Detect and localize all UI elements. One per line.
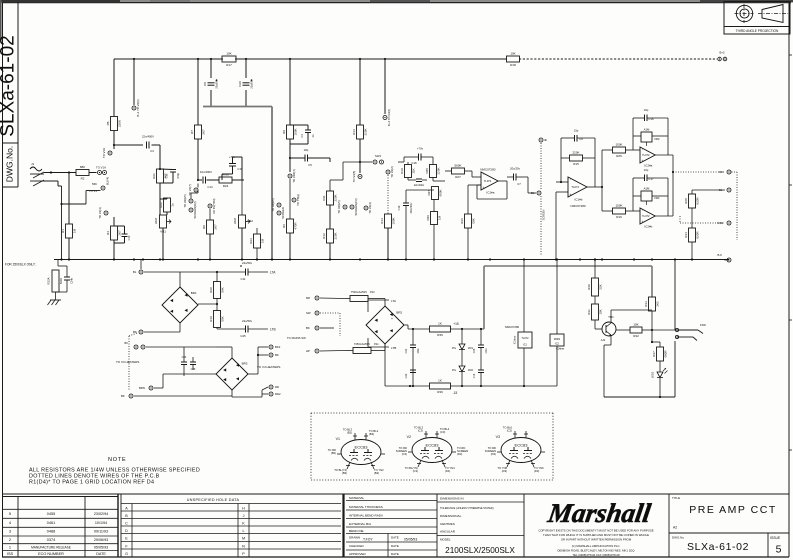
- wire jack to R2: [44, 172, 76, 174]
- wire down to terminals: [289, 158, 291, 172]
- wire jack earth: [61, 186, 63, 260]
- wire R28 to bus: [691, 208, 693, 228]
- svg-text:RD: RD: [275, 385, 279, 389]
- wire R11 top: [329, 180, 331, 191]
- wire R7 down: [197, 139, 199, 180]
- svg-text:R6 BL(YB3): R6 BL(YB3): [212, 198, 216, 213]
- node TO V2(2): [386, 166, 394, 178]
- junction: [523, 258, 525, 260]
- svg-text:R31: R31: [587, 309, 591, 315]
- capacitor C13: [165, 170, 181, 179]
- svg-text:TO V2(2): TO V2(2): [390, 166, 394, 178]
- svg-text:R21: R21: [152, 173, 156, 179]
- wire mains live: [320, 297, 345, 300]
- svg-text:220n/400v: 220n/400v: [411, 202, 413, 214]
- svg-text:FS2: FS2: [370, 291, 375, 294]
- wire bridge bottom to BK: [179, 323, 181, 332]
- junction: [651, 258, 653, 260]
- resistor R21 wire: [159, 168, 161, 170]
- junction: [672, 171, 674, 173]
- wire R33 top grey: [651, 296, 653, 298]
- svg-text:LTA: LTA: [391, 299, 396, 303]
- resistor R37: [652, 347, 668, 361]
- resistor R6: [282, 219, 298, 233]
- svg-text:220K: 220K: [572, 151, 579, 155]
- switch SW1: [360, 154, 384, 164]
- wire bus drop x675: [674, 260, 676, 331]
- ic IC2 power: [550, 334, 565, 351]
- svg-text:SLXa-61-02: SLXa-61-02: [687, 541, 749, 553]
- svg-text:C22: C22: [404, 373, 408, 378]
- wire R9 down: [289, 139, 291, 158]
- wire: [451, 328, 485, 330]
- junction: [241, 258, 243, 260]
- resistor R17: [222, 52, 236, 67]
- svg-text:BK: BK: [121, 394, 125, 398]
- wire: [461, 372, 463, 387]
- wire -15 rail: [410, 385, 430, 387]
- resistor R7: [190, 125, 206, 139]
- node SCREEN: [277, 207, 285, 219]
- wire R9 drop: [289, 59, 291, 125]
- junction: [50, 171, 52, 173]
- wire C20 down: [245, 90, 247, 106]
- capacitor C8: [203, 79, 219, 89]
- chassis ground: [48, 300, 62, 305]
- svg-text:MODEL: MODEL: [440, 538, 451, 542]
- capacitor C3: [142, 135, 154, 154]
- svg-text:15p: 15p: [574, 129, 579, 133]
- svg-text:C18: C18: [411, 161, 417, 165]
- svg-text:(B2): (B2): [369, 432, 374, 436]
- material block: [346, 496, 437, 557]
- svg-text:1: 1: [9, 544, 11, 549]
- svg-text:R18: R18: [510, 63, 516, 67]
- svg-text:(C) MARSHALL AMPLIFICATION PLC: (C) MARSHALL AMPLIFICATION PLC.: [572, 544, 621, 548]
- node grid stopper 56K: [101, 186, 105, 190]
- wire R11-R12: [329, 205, 331, 229]
- wire cathode V1a: [113, 217, 115, 226]
- svg-text:BRN: BRN: [139, 386, 145, 390]
- svg-text:APPROVED: APPROVED: [349, 552, 367, 556]
- capacitor C23: [414, 179, 425, 187]
- svg-text:2K7: 2K7: [118, 230, 122, 236]
- junction: [601, 186, 603, 188]
- svg-text:5: 5: [9, 511, 11, 516]
- svg-text:(B2): (B2): [347, 431, 352, 435]
- svg-text:CHECKED: CHECKED: [349, 544, 365, 548]
- svg-text:LTA: LTA: [270, 271, 276, 275]
- svg-text:600K: 600K: [439, 189, 443, 196]
- junction: [289, 258, 291, 260]
- node RD: [719, 170, 731, 174]
- wire C3 to R21 node: [152, 144, 161, 146]
- resistor R14: [380, 214, 396, 228]
- node BK: [269, 353, 279, 357]
- wire bus to BL: [140, 260, 142, 270]
- svg-text:M: M: [242, 537, 245, 541]
- junction: [601, 258, 603, 260]
- resistor R16: [613, 204, 626, 220]
- junction: [405, 258, 407, 260]
- wire pair: [58, 265, 67, 267]
- wire IC2a feedback loop: [633, 117, 645, 119]
- svg-text:(C3): (C3): [402, 452, 407, 456]
- svg-text:18p: 18p: [304, 148, 309, 152]
- wire R12 to bus: [329, 243, 331, 260]
- wire dashed screen 2: [540, 196, 542, 256]
- svg-text:SCR: SCR: [717, 221, 723, 225]
- junction: [162, 258, 164, 260]
- wire emitter: [610, 335, 612, 345]
- wire R28 top: [691, 190, 693, 194]
- svg-text:C8: C8: [203, 82, 207, 86]
- svg-text:BL(Y4): BL(Y4): [106, 177, 110, 185]
- svg-text:BK: BK: [125, 341, 129, 345]
- svg-text:22n/400V: 22n/400V: [142, 135, 154, 139]
- wire C15 loop: [221, 174, 223, 180]
- unspecified hole data table: [121, 494, 344, 557]
- junction: [60, 258, 62, 260]
- svg-text:SCREEN: SCREEN: [542, 209, 546, 220]
- svg-text:R37: R37: [652, 351, 656, 357]
- wire dashed pcb: [387, 175, 389, 214]
- junction: [461, 328, 463, 330]
- svg-text:LED1: LED1: [651, 371, 655, 378]
- pcb outline dashed box: [311, 412, 553, 414]
- svg-text:(B2): (B2): [374, 471, 379, 475]
- wire C8 to screen line: [210, 90, 212, 106]
- wire C8 stem: [210, 59, 212, 78]
- svg-text:22n/400v: 22n/400v: [414, 184, 425, 187]
- wire LTB: [217, 328, 246, 330]
- wire jack return: [674, 341, 676, 397]
- svg-text:1M: 1M: [438, 215, 442, 220]
- wire bend to BL node: [527, 177, 529, 193]
- resistor R24: [219, 173, 232, 189]
- node TO V3(5): [352, 171, 362, 183]
- svg-text:ZD2: ZD2: [468, 368, 473, 372]
- resistor R20: [209, 282, 225, 299]
- resistor VR6: [426, 212, 442, 225]
- wire IC2a out: [655, 154, 673, 156]
- wire V1a anode drop: [113, 59, 115, 116]
- svg-text:680R: 680R: [664, 350, 668, 358]
- svg-text:11K: 11K: [412, 168, 416, 173]
- svg-text:BK: BK: [275, 353, 279, 357]
- svg-text:1M: 1M: [261, 238, 265, 243]
- wire VR2 top: [241, 180, 243, 215]
- junction: [651, 329, 653, 331]
- node BL: [719, 188, 731, 192]
- svg-text:THIRD ANGLE PROJECTION: THIRD ANGLE PROJECTION: [736, 29, 779, 33]
- junction: [271, 258, 273, 260]
- wire screen return (pcb trace): [203, 106, 272, 108]
- svg-text:SW1: SW1: [375, 154, 382, 158]
- wire feedback loop: [561, 137, 575, 139]
- junction: [197, 258, 199, 260]
- wire R20 chain: [216, 272, 218, 282]
- svg-text:C4: C4: [300, 134, 304, 138]
- svg-text:B+1 TO V2(6): B+1 TO V2(6): [136, 99, 140, 116]
- node BL: [133, 270, 143, 274]
- svg-text:R35: R35: [437, 333, 443, 337]
- svg-text:PRE AMP CCT: PRE AMP CCT: [689, 504, 777, 516]
- capacitor C15b: [473, 370, 484, 378]
- node BL: [531, 191, 541, 195]
- svg-text:SLXa-61-02: SLXa-61-02: [0, 35, 19, 136]
- junction: [359, 258, 361, 260]
- svg-text:R23: R23: [249, 238, 253, 244]
- svg-text:MATERIAL: MATERIAL: [349, 496, 365, 500]
- wire B+4 drop: [384, 59, 386, 114]
- resistor R21: [152, 169, 168, 183]
- svg-text:2K2: 2K2: [656, 301, 660, 307]
- resistor R4: [106, 226, 122, 240]
- svg-text:220K: 220K: [437, 167, 441, 174]
- svg-text:R36: R36: [437, 390, 443, 394]
- wire IC1b inputs: [556, 181, 568, 183]
- capacitor C15 bright: [229, 155, 243, 171]
- capacitor C19: [397, 202, 413, 214]
- node TO V1(3): [98, 207, 108, 219]
- resistor R8: [202, 220, 218, 234]
- potentiometer VR3: [641, 128, 660, 147]
- drawing number box DWG.No. SLXa-61-02: [0, 2, 19, 187]
- svg-text:TOLERANCE (UNLESS OTHERWISE ST: TOLERANCE (UNLESS OTHERWISE STATED): [440, 507, 494, 510]
- svg-text:820R: 820R: [696, 231, 700, 239]
- svg-text:(C3): (C3): [440, 430, 445, 434]
- resistor VR7: [427, 187, 443, 200]
- svg-text:R27: R27: [455, 175, 461, 179]
- svg-text:10K: 10K: [633, 323, 638, 327]
- wire: [691, 242, 693, 260]
- svg-text:IC2#b: IC2#b: [644, 224, 652, 228]
- svg-text:T500mA/250V: T500mA/250V: [351, 291, 367, 294]
- svg-text:(D4): (D4): [445, 469, 450, 473]
- svg-text:TO V3 HEATERS: TO V3 HEATERS: [116, 360, 139, 364]
- svg-text:R24: R24: [223, 184, 229, 188]
- svg-text:IC1#b: IC1#b: [574, 197, 582, 201]
- wire R19 to LTB: [216, 328, 218, 330]
- node BK: [306, 326, 319, 330]
- wire dashed to SCR: [679, 216, 681, 223]
- wire IC1b out: [587, 186, 602, 188]
- svg-text:Marshall: Marshall: [545, 498, 653, 528]
- svg-text:SCREEN: SCREEN: [281, 207, 285, 219]
- wire R27 to IC1a: [465, 170, 473, 172]
- svg-text:+: +: [482, 186, 484, 190]
- junction: [633, 258, 635, 260]
- svg-text:IC1#a: IC1#a: [486, 190, 494, 194]
- svg-text:+70v: +70v: [417, 147, 424, 151]
- op-amp IC2b: [640, 208, 655, 228]
- svg-text:DATE: DATE: [391, 544, 399, 548]
- svg-text:ECC83: ECC83: [355, 445, 369, 450]
- svg-text:B.K: B.K: [717, 253, 722, 257]
- wire screen return vertical: [271, 107, 273, 260]
- svg-text:22u/50v: 22u/50v: [215, 79, 219, 89]
- wire collector: [610, 310, 612, 323]
- junction: [289, 58, 291, 60]
- svg-text:G: G: [125, 552, 128, 556]
- svg-text:500R: 500R: [59, 278, 63, 284]
- resistor R33: [644, 297, 660, 311]
- wire HT supply bus: [114, 58, 223, 60]
- wire: [659, 342, 661, 347]
- node TO V2(E5): [271, 198, 281, 211]
- svg-text:(C3): (C3): [418, 429, 423, 433]
- svg-text:R30: R30: [587, 284, 591, 290]
- svg-text:100u: 100u: [417, 348, 420, 354]
- svg-text:3: 3: [9, 529, 11, 534]
- svg-text:RD: RD: [719, 170, 723, 174]
- capacitor C4 parallel: [300, 130, 315, 138]
- svg-text:L: L: [242, 529, 244, 533]
- svg-text:R17: R17: [226, 63, 232, 67]
- junction: [489, 258, 491, 260]
- svg-text:DWG.No: DWG.No: [672, 536, 684, 540]
- resistor R36: [430, 379, 451, 395]
- svg-text:VR6: VR6: [426, 215, 430, 221]
- resistor R19: [400, 165, 416, 178]
- wire HT bus middle: [235, 58, 507, 60]
- svg-text:1s: 1s: [171, 203, 175, 207]
- wire R13 drop: [359, 59, 361, 125]
- resistor R27: [452, 164, 465, 180]
- svg-text:22K: 22K: [599, 284, 603, 289]
- svg-text:2100SLX/2500SLX: 2100SLX/2500SLX: [445, 546, 515, 555]
- svg-text:NMC07280: NMC07280: [505, 325, 520, 329]
- svg-text:IC1#pwr: IC1#pwr: [514, 335, 517, 344]
- svg-text:220K: 220K: [364, 128, 368, 135]
- svg-text:(C3): (C3): [413, 469, 418, 473]
- capacitor C25b: [473, 345, 488, 354]
- svg-text:A1M: A1M: [644, 128, 650, 132]
- svg-text:BR2: BR2: [396, 311, 402, 315]
- capacitor C21: [404, 345, 420, 354]
- svg-text:10p: 10p: [644, 168, 649, 172]
- junction: [197, 179, 199, 181]
- bridge rectifier BR1: [162, 287, 198, 323]
- svg-text:20u/25v: 20u/25v: [510, 167, 521, 171]
- svg-text:DRAWN: DRAWN: [349, 536, 360, 540]
- svg-text:C3: C3: [150, 149, 154, 153]
- node B+4: [383, 109, 391, 126]
- wire BL branch: [692, 189, 725, 191]
- svg-text:M381: M381: [554, 338, 561, 341]
- zener ZD2: [452, 366, 474, 372]
- wire stage2 coupling: [159, 162, 161, 169]
- svg-text:C5: C5: [308, 163, 312, 167]
- node BL(YB3): [208, 198, 216, 213]
- svg-text:VR3: VR3: [654, 137, 660, 141]
- svg-text:TO V4 HEATERS: TO V4 HEATERS: [257, 365, 280, 369]
- resistor R9: [282, 125, 298, 139]
- svg-text:TO V2(4): TO V2(4): [368, 202, 372, 214]
- wire VR2 to bus: [241, 228, 243, 260]
- svg-text:B.K: B.K: [725, 258, 730, 262]
- resistor R32: [630, 323, 642, 339]
- svg-text:BR1: BR1: [191, 291, 197, 295]
- wire ZD chain: [461, 329, 463, 344]
- wire R32: [616, 329, 630, 331]
- svg-text:MP: MP: [306, 296, 310, 300]
- node RD: [269, 385, 279, 389]
- svg-text:470R: 470R: [294, 222, 298, 230]
- wire: [209, 234, 211, 260]
- svg-text:15v: 15v: [452, 346, 457, 350]
- svg-text:R2: R2: [81, 177, 85, 181]
- svg-text:SCREEN(D3): SCREEN(D3): [193, 201, 197, 218]
- wire to jack: [652, 329, 677, 331]
- svg-text:2: 2: [9, 537, 11, 542]
- wire heater drop: [183, 347, 185, 362]
- svg-text:TL072: TL072: [642, 214, 650, 218]
- svg-text:100u: 100u: [486, 348, 488, 354]
- ic IC1 power: [505, 325, 532, 348]
- svg-text:DATE: DATE: [391, 552, 399, 556]
- svg-text:05/05/93: 05/05/93: [404, 538, 417, 542]
- svg-text:VR5: VR5: [425, 168, 429, 174]
- svg-text:R33: R33: [644, 301, 648, 307]
- node B.K: [725, 258, 732, 262]
- resistor R34: [684, 228, 700, 242]
- svg-text:220K: 220K: [334, 232, 338, 239]
- wire return bottom: [604, 396, 675, 398]
- wire R14 to bus: [387, 228, 389, 260]
- svg-text:10n/400V: 10n/400V: [200, 170, 212, 174]
- resistor R19 wire: [403, 157, 405, 162]
- svg-text:C25: C25: [473, 348, 476, 353]
- fuse FS1: [345, 343, 379, 354]
- junction: [329, 258, 331, 260]
- svg-text:ANGULAR: ANGULAR: [440, 530, 456, 534]
- svg-text:R25: R25: [616, 154, 622, 158]
- svg-text:R22A: R22A: [47, 277, 51, 284]
- svg-text:0374: 0374: [47, 538, 55, 542]
- svg-text:220K: 220K: [118, 120, 122, 127]
- wire jack sleeve: [674, 330, 676, 337]
- svg-text:TO V1A: TO V1A: [102, 148, 106, 158]
- svg-text:TITLE: TITLE: [672, 496, 680, 500]
- svg-text:DIMENSIONS IN: DIMENSIONS IN: [440, 497, 464, 501]
- svg-text:R9: R9: [282, 130, 286, 134]
- junction: [245, 58, 247, 60]
- wire: [160, 198, 167, 200]
- wire: [113, 131, 115, 145]
- svg-text:C25: C25: [240, 334, 246, 338]
- svg-text:AJ2: AJ2: [601, 338, 606, 342]
- svg-text:TO V1: TO V1: [89, 189, 97, 193]
- svg-text:BL: BL: [133, 270, 137, 274]
- svg-text:DATE: DATE: [96, 552, 106, 556]
- svg-text:C: C: [125, 522, 128, 526]
- input jack J1: [30, 162, 44, 186]
- junction: [133, 58, 135, 60]
- wire IC1 power: [523, 260, 525, 333]
- wire VR chain: [433, 200, 435, 212]
- capacitor C6 feedback: [574, 129, 584, 142]
- wire LED: [659, 361, 661, 372]
- op-amp IC1a: [480, 168, 498, 195]
- wire +15 rail: [404, 324, 408, 326]
- node SCREEN (D3): [189, 201, 197, 218]
- wire R26: [467, 185, 469, 214]
- potentiometer VR4: [641, 187, 660, 206]
- svg-text:22u/50v: 22u/50v: [242, 319, 253, 323]
- capacitor C22: [404, 370, 416, 378]
